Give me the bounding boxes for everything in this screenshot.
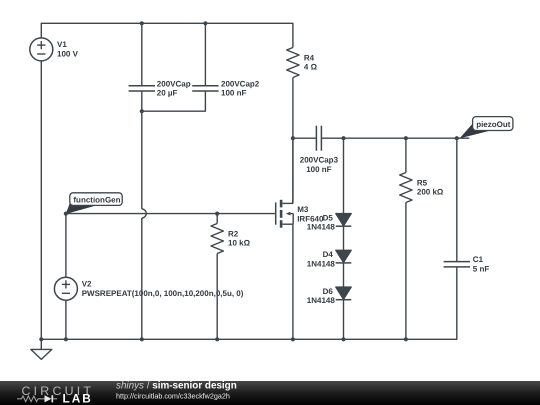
svg-text:D5: D5 (323, 213, 334, 222)
svg-text:1N4148: 1N4148 (307, 296, 336, 305)
voltage source V1 (30, 38, 53, 61)
node bottom M3 (291, 337, 295, 341)
node R2 top (215, 212, 219, 216)
svg-text:V1: V1 (57, 40, 67, 49)
label R2 10 kOhm (228, 229, 251, 247)
label V1 100 V (57, 40, 79, 58)
wire M3 drain up (292, 138, 294, 203)
svg-text:5 nF: 5 nF (473, 265, 490, 274)
resistor R4 (287, 48, 299, 204)
label R4 4 Ohm (304, 53, 318, 71)
transistor M3 IRF640 (276, 200, 294, 228)
diode D5 (336, 214, 352, 227)
node top-cap1 (140, 21, 144, 25)
svg-text:200VCap3: 200VCap3 (300, 156, 339, 165)
svg-text:10 kΩ: 10 kΩ (228, 239, 251, 248)
svg-text:piezoOut: piezoOut (476, 120, 511, 129)
label D5 1N4148 (307, 213, 336, 231)
svg-text:1N4148: 1N4148 (307, 259, 336, 268)
wire 200VCap lower with hop (142, 91, 147, 339)
svg-text:200VCap2: 200VCap2 (221, 79, 260, 88)
capacitor 200VCap vertical branch upper (141, 23, 143, 85)
label D4 1N4148 (307, 250, 336, 268)
capacitor C1 (444, 262, 470, 267)
node bottom left (39, 337, 43, 341)
svg-text:C1: C1 (473, 255, 484, 264)
diode D6 (336, 287, 352, 300)
wire left rail lower (40, 61, 42, 339)
node bottom V2 (64, 337, 68, 341)
node bottom diode (341, 337, 345, 341)
label M3 IRF640 (297, 205, 324, 223)
wire top rail (41, 23, 293, 47)
node flag functionGen (66, 193, 122, 214)
capacitor 200VCap3 (316, 126, 321, 151)
wire V2 branch upper (65, 214, 67, 278)
svg-text:R5: R5 (417, 178, 428, 187)
label V2 PWSREPEAT (82, 279, 244, 297)
node top-cap2 (203, 21, 207, 25)
wire D4-D6 (343, 263, 345, 287)
svg-text:100 nF: 100 nF (306, 165, 331, 174)
wire functionGen horizontal (66, 213, 275, 215)
label 200VCap3 100 nF (300, 156, 339, 174)
wire M3 source down (292, 224, 294, 339)
svg-text:20 µF: 20 µF (157, 89, 178, 98)
diode D4 (336, 250, 352, 263)
svg-text:V2: V2 (82, 279, 92, 288)
label C1 5 nF (473, 255, 490, 273)
node bottom R5 (404, 337, 408, 341)
svg-text:http://circuitlab.com/c33eckfw: http://circuitlab.com/c33eckfw2ga2h (116, 391, 230, 400)
wire cap bottoms connector (142, 91, 206, 111)
svg-text:D4: D4 (323, 250, 334, 259)
wire D6 down (343, 300, 345, 340)
svg-text:1N4148: 1N4148 (307, 223, 336, 232)
svg-text:LAB: LAB (63, 391, 93, 405)
label 200VCap2 100 nF (221, 79, 260, 97)
wire D5-D4 (343, 226, 345, 250)
node bottom cap1 (140, 337, 144, 341)
svg-text:4 Ω: 4 Ω (304, 63, 318, 72)
node cap bottoms (140, 109, 144, 113)
node flag piezoOut (460, 117, 513, 139)
label R5 200 kOhm (417, 178, 444, 196)
capacitor 200VCap (129, 86, 155, 91)
svg-text:D6: D6 (323, 287, 334, 296)
node mid diode (341, 136, 345, 140)
wire bottom rail (41, 267, 457, 339)
wire diode branch top (343, 138, 345, 213)
svg-text:R2: R2 (228, 229, 239, 238)
voltage source V2 (54, 277, 77, 300)
ground (31, 339, 52, 359)
resistor R2 (211, 214, 223, 340)
node functionGen anchor (64, 212, 68, 216)
svg-text:100 nF: 100 nF (221, 89, 246, 98)
wire V2 branch lower (65, 300, 67, 339)
svg-text:200VCap: 200VCap (157, 79, 191, 88)
footer bar (0, 381, 540, 405)
wire mid rail (293, 137, 470, 139)
logo resistor-diode glyph (17, 395, 57, 402)
svg-text:functionGen: functionGen (73, 196, 120, 205)
svg-text:PWSREPEAT(100n,0, 100n,10,200n: PWSREPEAT(100n,0, 100n,10,200n,0,5u, 0) (82, 289, 244, 298)
node mid drain (291, 136, 295, 140)
svg-text:R4: R4 (304, 53, 315, 62)
capacitor 200VCap2 branch upper (204, 23, 206, 85)
wire C1 branch upper (456, 138, 458, 261)
node bottom R2 (215, 337, 219, 341)
label 200VCap 20 uF (157, 79, 191, 97)
svg-text:100 V: 100 V (57, 50, 79, 59)
svg-text:200 kΩ: 200 kΩ (417, 188, 444, 197)
label D6 1N4148 (307, 287, 336, 305)
node mid C1 (455, 136, 459, 140)
svg-text:M3: M3 (297, 205, 309, 214)
svg-text:shinys / sim-senior design: shinys / sim-senior design (116, 381, 237, 392)
resistor R5 (400, 138, 412, 339)
capacitor 200VCap2 (192, 86, 218, 91)
node mid R5 (404, 136, 408, 140)
